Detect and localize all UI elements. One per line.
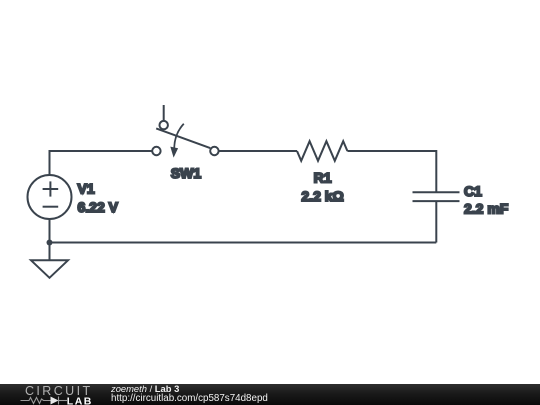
- capacitor C1: [413, 183, 509, 243]
- logo diode cathode lead: [59, 400, 68, 402]
- SW1 pole bar: [156, 128, 210, 148]
- wire: ground stub: [49, 243, 51, 261]
- svg-text:SW1: SW1: [171, 165, 202, 181]
- logo circuit glyph: [21, 397, 68, 405]
- wire: resistor to top-right corner down to capacitor: [347, 151, 436, 192]
- C1 bottom plate: [413, 200, 460, 202]
- wire: switch to resistor: [219, 150, 297, 152]
- CircuitLab logo: [0, 384, 100, 405]
- voltage source V1: [28, 175, 119, 243]
- SW1 top terminal circle: [160, 121, 168, 129]
- minus sign: [43, 206, 59, 208]
- svg-text:C1: C1: [464, 183, 482, 199]
- svg-text:2.2 kΩ: 2.2 kΩ: [301, 188, 343, 204]
- svg-text:V1: V1: [78, 181, 95, 197]
- wire: V1 top stub and top wire to switch left terminal: [50, 151, 153, 175]
- svg-text:6.22 V: 6.22 V: [78, 199, 119, 215]
- footer bar: [0, 384, 540, 405]
- attribution text: [111, 384, 268, 403]
- switch SW1: [152, 105, 218, 181]
- SW1 right terminal circle: [210, 147, 218, 155]
- wire: bottom return wire: [50, 242, 437, 244]
- wire: C1 bottom stub: [435, 201, 437, 242]
- svg-text:2.2 mF: 2.2 mF: [464, 201, 509, 217]
- svg-text:R1: R1: [314, 170, 332, 186]
- C1 top plate: [413, 191, 460, 193]
- SW1 actuation arrow: [174, 124, 184, 148]
- junction node: [47, 240, 53, 246]
- plus sign: [43, 188, 59, 190]
- ground: [31, 243, 68, 278]
- svg-text:LAB: LAB: [67, 395, 93, 405]
- wire: SW1 top throw stub: [163, 105, 165, 121]
- logo diode cathode bar: [58, 397, 60, 405]
- wire: V1 bottom stub: [49, 219, 51, 243]
- SW1 left terminal circle: [152, 147, 160, 155]
- resistor R1: [297, 141, 347, 204]
- logo diode triangle: [51, 397, 59, 405]
